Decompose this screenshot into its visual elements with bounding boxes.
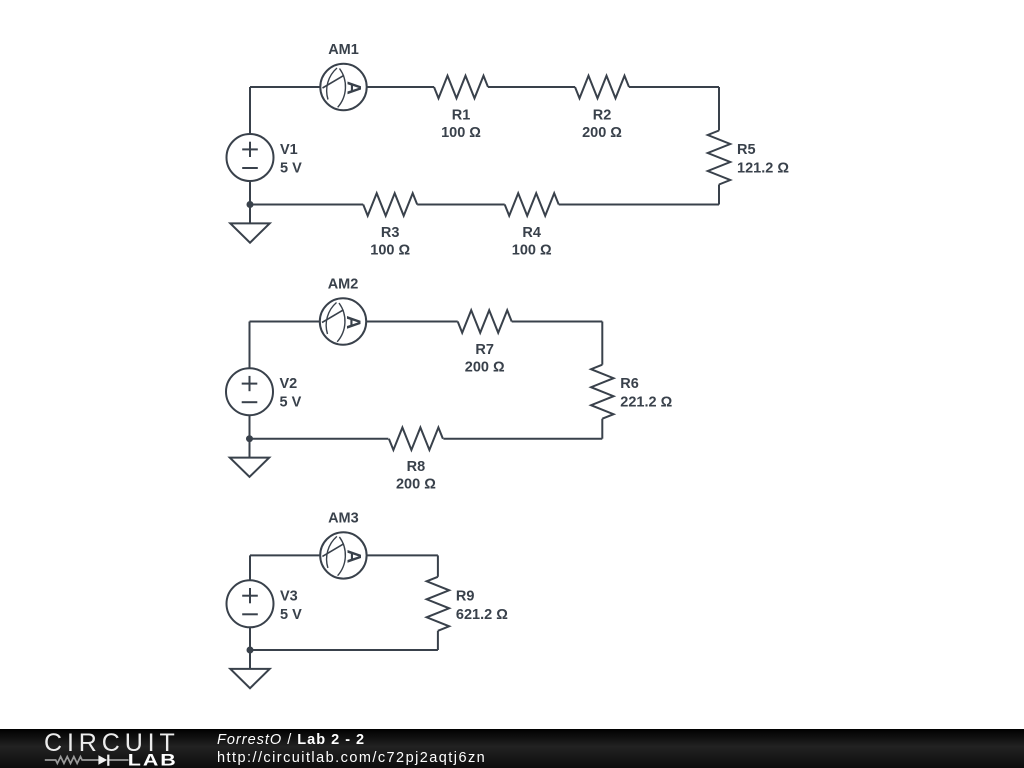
label V1 5 V (280, 142, 302, 177)
wire right rail 2 upper (601, 322, 603, 365)
svg-text:5 V: 5 V (280, 395, 302, 411)
label R1 100 &#937; (441, 107, 481, 141)
wire V2 bottom to ground (249, 415, 251, 457)
voltage source V3 (227, 580, 274, 627)
node junction net1 (247, 201, 254, 208)
svg-text:AM1: AM1 (328, 42, 359, 58)
svg-text:100 Ω: 100 Ω (512, 242, 552, 258)
label R5 121.2 &#937; (737, 142, 789, 177)
svg-text:A: A (342, 316, 363, 330)
wire R8 to node 2 (250, 438, 389, 440)
svg-text:AM2: AM2 (328, 277, 359, 293)
svg-text:R8: R8 (407, 459, 426, 475)
label AM3 (328, 510, 359, 526)
svg-text:R1: R1 (452, 107, 471, 123)
svg-text:R6: R6 (620, 376, 639, 392)
wire R7 to right rail 2 (512, 321, 603, 323)
footer url (217, 750, 486, 766)
svg-text:R7: R7 (475, 342, 494, 358)
ammeter AM2 (320, 298, 366, 344)
CircuitLab logo wordmark LAB (128, 752, 178, 768)
svg-text:V2: V2 (280, 376, 298, 392)
CircuitLab logo resistor-diode symbol (45, 757, 129, 764)
wire R3 to node 1 (250, 204, 363, 206)
CircuitLab logo diode triangle and bar (98, 755, 109, 766)
svg-text:R3: R3 (381, 225, 400, 241)
ground GND1 (230, 223, 269, 242)
label AM1 (328, 42, 359, 58)
svg-text:V3: V3 (280, 588, 298, 604)
svg-text:100 Ω: 100 Ω (441, 125, 481, 141)
label R3 100 &#937; (370, 225, 410, 258)
svg-text:221.2 Ω: 221.2 Ω (620, 395, 672, 411)
wire AM2 to R7 (366, 321, 458, 323)
svg-text:LAB: LAB (128, 752, 178, 768)
svg-text:A: A (343, 549, 364, 563)
svg-text:R5: R5 (737, 142, 756, 158)
label V2 5 V (280, 376, 302, 411)
wire V2 top to rail 2 (249, 322, 251, 369)
ammeter AM3 (320, 532, 366, 578)
svg-text:A: A (343, 81, 364, 95)
footer title ForrestO / Lab 2 - 2 (217, 732, 365, 748)
wire top rail 1 left (250, 86, 320, 88)
svg-text:R9: R9 (456, 588, 475, 604)
label R4 100 &#937; (512, 225, 552, 258)
voltage source V1 (227, 134, 274, 181)
resistor R8 (389, 427, 443, 450)
resistor R7 (458, 310, 512, 333)
resistor R3 (363, 193, 417, 216)
svg-text:121.2 Ω: 121.2 Ω (737, 161, 789, 177)
resistor R9 (427, 577, 450, 631)
wire bottom rail 1 right (559, 204, 719, 206)
node junction net2 (246, 435, 253, 442)
svg-text:5 V: 5 V (280, 161, 302, 177)
wire bottom rail 2 right (443, 438, 602, 440)
node junction net3 (247, 647, 254, 654)
wire V3 bottom to ground (249, 627, 251, 669)
wire V3 top to rail 3 (249, 555, 251, 580)
svg-text:V1: V1 (280, 142, 298, 158)
wire right rail 1 upper (718, 87, 720, 131)
wire R4 to R3 (417, 204, 505, 206)
wire AM1 to R1 (367, 86, 434, 88)
ammeter AM1 (320, 64, 366, 110)
label R8 200 &#937; (396, 459, 436, 493)
label R2 200 &#937; (582, 107, 622, 141)
svg-text:http://circuitlab.com/c72pj2aq: http://circuitlab.com/c72pj2aqtj6zn (217, 750, 486, 766)
wire right rail 3 lower (437, 631, 439, 650)
footer bar (0, 729, 1024, 768)
CircuitLab logo wordmark CIRCUIT (44, 729, 180, 757)
wire V1 top to rail 1 (249, 87, 251, 134)
wire right rail 3 upper (437, 555, 439, 576)
wire R2 to right rail 1 (629, 86, 719, 88)
wire top rail 2 left (250, 321, 320, 323)
svg-text:5 V: 5 V (280, 607, 302, 623)
svg-text:R4: R4 (522, 225, 541, 241)
svg-text:621.2 Ω: 621.2 Ω (456, 607, 508, 623)
resistor R6 (591, 365, 614, 419)
label R9 621.2 &#937; (456, 588, 508, 623)
label AM2 (328, 277, 359, 293)
label V3 5 V (280, 588, 302, 623)
resistor R1 (434, 76, 488, 99)
svg-text:100 Ω: 100 Ω (370, 242, 410, 258)
wire right rail 2 lower (601, 419, 603, 439)
wire AM3 to right rail 3 (367, 554, 438, 556)
resistor R2 (575, 76, 629, 99)
svg-text:200 Ω: 200 Ω (582, 125, 622, 141)
label R7 200 &#937; (465, 342, 505, 376)
label R6 221.2 &#937; (620, 376, 672, 411)
wire R1 to R2 (488, 86, 575, 88)
ground GND3 (230, 669, 269, 688)
svg-text:AM3: AM3 (328, 510, 359, 526)
wire top rail 3 left (250, 554, 320, 556)
ground GND2 (230, 458, 269, 477)
svg-text:200 Ω: 200 Ω (396, 477, 436, 493)
resistor R5 (708, 131, 731, 185)
wire right rail 1 lower (718, 185, 720, 205)
svg-text:ForrestO / Lab 2 - 2: ForrestO / Lab 2 - 2 (217, 732, 365, 748)
wire V1 bottom to ground (249, 181, 251, 223)
resistor R4 (505, 193, 559, 216)
voltage source V2 (226, 368, 273, 415)
wire bottom rail 3 (250, 649, 438, 651)
svg-text:200 Ω: 200 Ω (465, 359, 505, 375)
svg-text:R2: R2 (593, 107, 612, 123)
